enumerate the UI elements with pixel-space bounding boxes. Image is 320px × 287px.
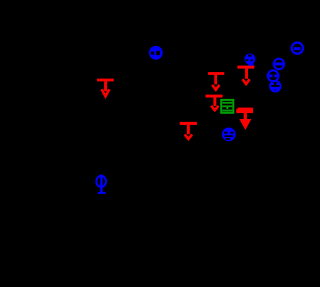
negative ion chain N4 (bottom)	[270, 81, 280, 91]
inhibition arrow A4	[206, 95, 223, 111]
inhibition arrow A3 (top right)	[237, 66, 254, 84]
bold arrow A5 (thick, solid head)	[236, 108, 253, 130]
inhibition arrow A2	[208, 72, 224, 90]
inhibition arrow A6	[180, 122, 197, 139]
negative ion chain N2 (top)	[274, 59, 284, 69]
positive ion P1 (filled blue disc with dark slots)	[149, 46, 163, 60]
negative ion chain N3 (middle)	[268, 70, 279, 81]
transporter box (green)	[221, 100, 233, 113]
inhibition arrow A1 (left)	[97, 79, 114, 97]
negative ion N1 top right	[292, 43, 303, 54]
negative ion M above arrow A3	[244, 54, 255, 66]
phi symbol (membrane potential)	[96, 174, 106, 194]
negative ion N below box	[222, 127, 236, 141]
